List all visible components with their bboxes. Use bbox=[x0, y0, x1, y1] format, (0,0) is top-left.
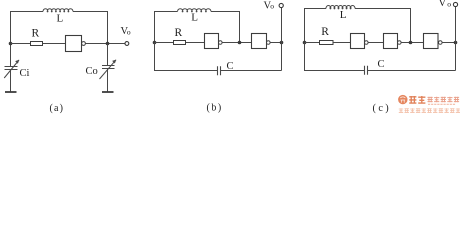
wire resistor to gate (a) bbox=[43, 43, 66, 45]
label Ci bbox=[20, 68, 30, 79]
wire top-right segment (c) bbox=[355, 9, 411, 43]
wire gate2 to gate3 (c) bbox=[401, 42, 423, 44]
wire main left (a) bbox=[11, 43, 31, 45]
label Co bbox=[86, 66, 98, 77]
node input junction (a) bbox=[9, 42, 13, 46]
svg-text:L: L bbox=[340, 9, 347, 21]
svg-text:(a): (a) bbox=[50, 103, 65, 114]
wire main left (b) bbox=[155, 42, 174, 44]
node mid junction (b) bbox=[238, 41, 242, 45]
inverter U1 (b) bbox=[205, 34, 223, 49]
label Vo (c) bbox=[439, 0, 452, 9]
label Vo (a) bbox=[121, 26, 131, 37]
label L (b) bbox=[191, 11, 198, 23]
node input junction (b) bbox=[153, 41, 157, 45]
wire top-left segment (a) bbox=[11, 12, 44, 67]
watermark title text 维库 bbox=[409, 96, 425, 104]
svg-text:o: o bbox=[127, 28, 131, 37]
wire gate1 to gate2 (c) bbox=[368, 42, 383, 44]
ground (a) right bbox=[102, 91, 114, 93]
svg-text:R: R bbox=[321, 26, 329, 38]
inductor L (a) bbox=[43, 9, 73, 12]
label R (a) bbox=[32, 28, 40, 40]
wire top-left segment (b) bbox=[155, 12, 178, 43]
capacitor C (c) bbox=[365, 66, 368, 75]
svg-text:L: L bbox=[57, 13, 64, 25]
inverter U2 (b) bbox=[252, 34, 271, 49]
svg-text:(b): (b) bbox=[207, 103, 223, 114]
terminal Vo (a) bbox=[125, 42, 129, 46]
terminal Vo (c) bbox=[453, 2, 457, 6]
node mid junction (c) bbox=[409, 41, 413, 45]
label R (b) bbox=[175, 27, 183, 39]
caption (c) bbox=[373, 103, 392, 114]
inductor L (b) bbox=[178, 9, 211, 12]
wire gate3 to output (c) bbox=[442, 42, 455, 44]
svg-text:o: o bbox=[447, 0, 451, 9]
resistor R (c) bbox=[320, 41, 334, 45]
terminal Vo (b) bbox=[279, 3, 283, 7]
wire bottom right (b) bbox=[221, 70, 282, 72]
label C (b) bbox=[227, 61, 234, 72]
capacitor Ci (a) variable bbox=[4, 60, 19, 78]
label R (c) bbox=[321, 26, 329, 38]
watermark subtitle 电子市场网 bbox=[428, 97, 460, 102]
label C (c) bbox=[378, 59, 385, 70]
resistor R (b) bbox=[174, 41, 186, 45]
wire top-left segment (c) bbox=[305, 9, 327, 43]
wire gate2 to output (b) bbox=[270, 42, 281, 44]
svg-text:C: C bbox=[378, 59, 385, 70]
wire output to Co (a) bbox=[107, 44, 109, 66]
node output junction (a) bbox=[106, 42, 110, 46]
wire bottom right (c) bbox=[368, 70, 456, 72]
wire right drop (c) bbox=[455, 43, 457, 71]
capacitor C (b) bbox=[218, 66, 221, 75]
caption (a) bbox=[50, 103, 65, 114]
wire gate1 to gate2 (b) bbox=[222, 42, 251, 44]
label Vo (b) bbox=[264, 0, 275, 11]
svg-text:o: o bbox=[270, 2, 274, 11]
inductor L (c) bbox=[326, 6, 355, 9]
wire Co to ground (a) bbox=[107, 69, 109, 92]
caption (b) bbox=[207, 103, 223, 114]
node output junction (b) bbox=[280, 41, 284, 45]
svg-text:Co: Co bbox=[86, 66, 98, 77]
svg-text:L: L bbox=[191, 11, 198, 23]
resistor R (a) bbox=[31, 42, 43, 46]
inverter U1 (a) bbox=[66, 36, 86, 52]
label L (c) bbox=[340, 9, 347, 21]
svg-text:R: R bbox=[175, 27, 183, 39]
node output junction (c) bbox=[454, 41, 458, 45]
wire resistor to gate1 (b) bbox=[186, 42, 205, 44]
inverter U3 (c) bbox=[424, 34, 443, 49]
inverter U1 (c) bbox=[351, 34, 369, 49]
wire output riser (c) bbox=[455, 7, 457, 43]
svg-text:R: R bbox=[32, 28, 40, 40]
watermark tagline row bbox=[399, 108, 460, 113]
wire output riser (b) bbox=[281, 8, 283, 43]
svg-text:C: C bbox=[227, 61, 234, 72]
wire top-right segment (b) bbox=[211, 12, 240, 43]
svg-text:Ci: Ci bbox=[20, 68, 30, 79]
wire bottom left (b) bbox=[155, 43, 218, 71]
capacitor Co (a) variable bbox=[100, 60, 117, 79]
wire top-right segment (a) bbox=[73, 12, 108, 44]
wire main left (c) bbox=[305, 42, 320, 44]
node input junction (c) bbox=[303, 41, 307, 45]
watermark url line bbox=[428, 103, 456, 105]
wire resistor to gate1 (c) bbox=[333, 42, 351, 44]
wire gate to output (a) bbox=[85, 43, 125, 45]
wire bottom left (c) bbox=[305, 43, 365, 71]
watermark logo disc bbox=[398, 95, 407, 104]
inverter U2 (c) bbox=[384, 34, 402, 49]
wire Ci to ground (a) bbox=[10, 70, 12, 92]
wire right drop (b) bbox=[281, 43, 283, 71]
svg-text:(c): (c) bbox=[373, 103, 392, 114]
ground (a) left bbox=[5, 91, 17, 93]
label L (a) bbox=[57, 13, 64, 25]
svg-text:V: V bbox=[439, 0, 447, 9]
